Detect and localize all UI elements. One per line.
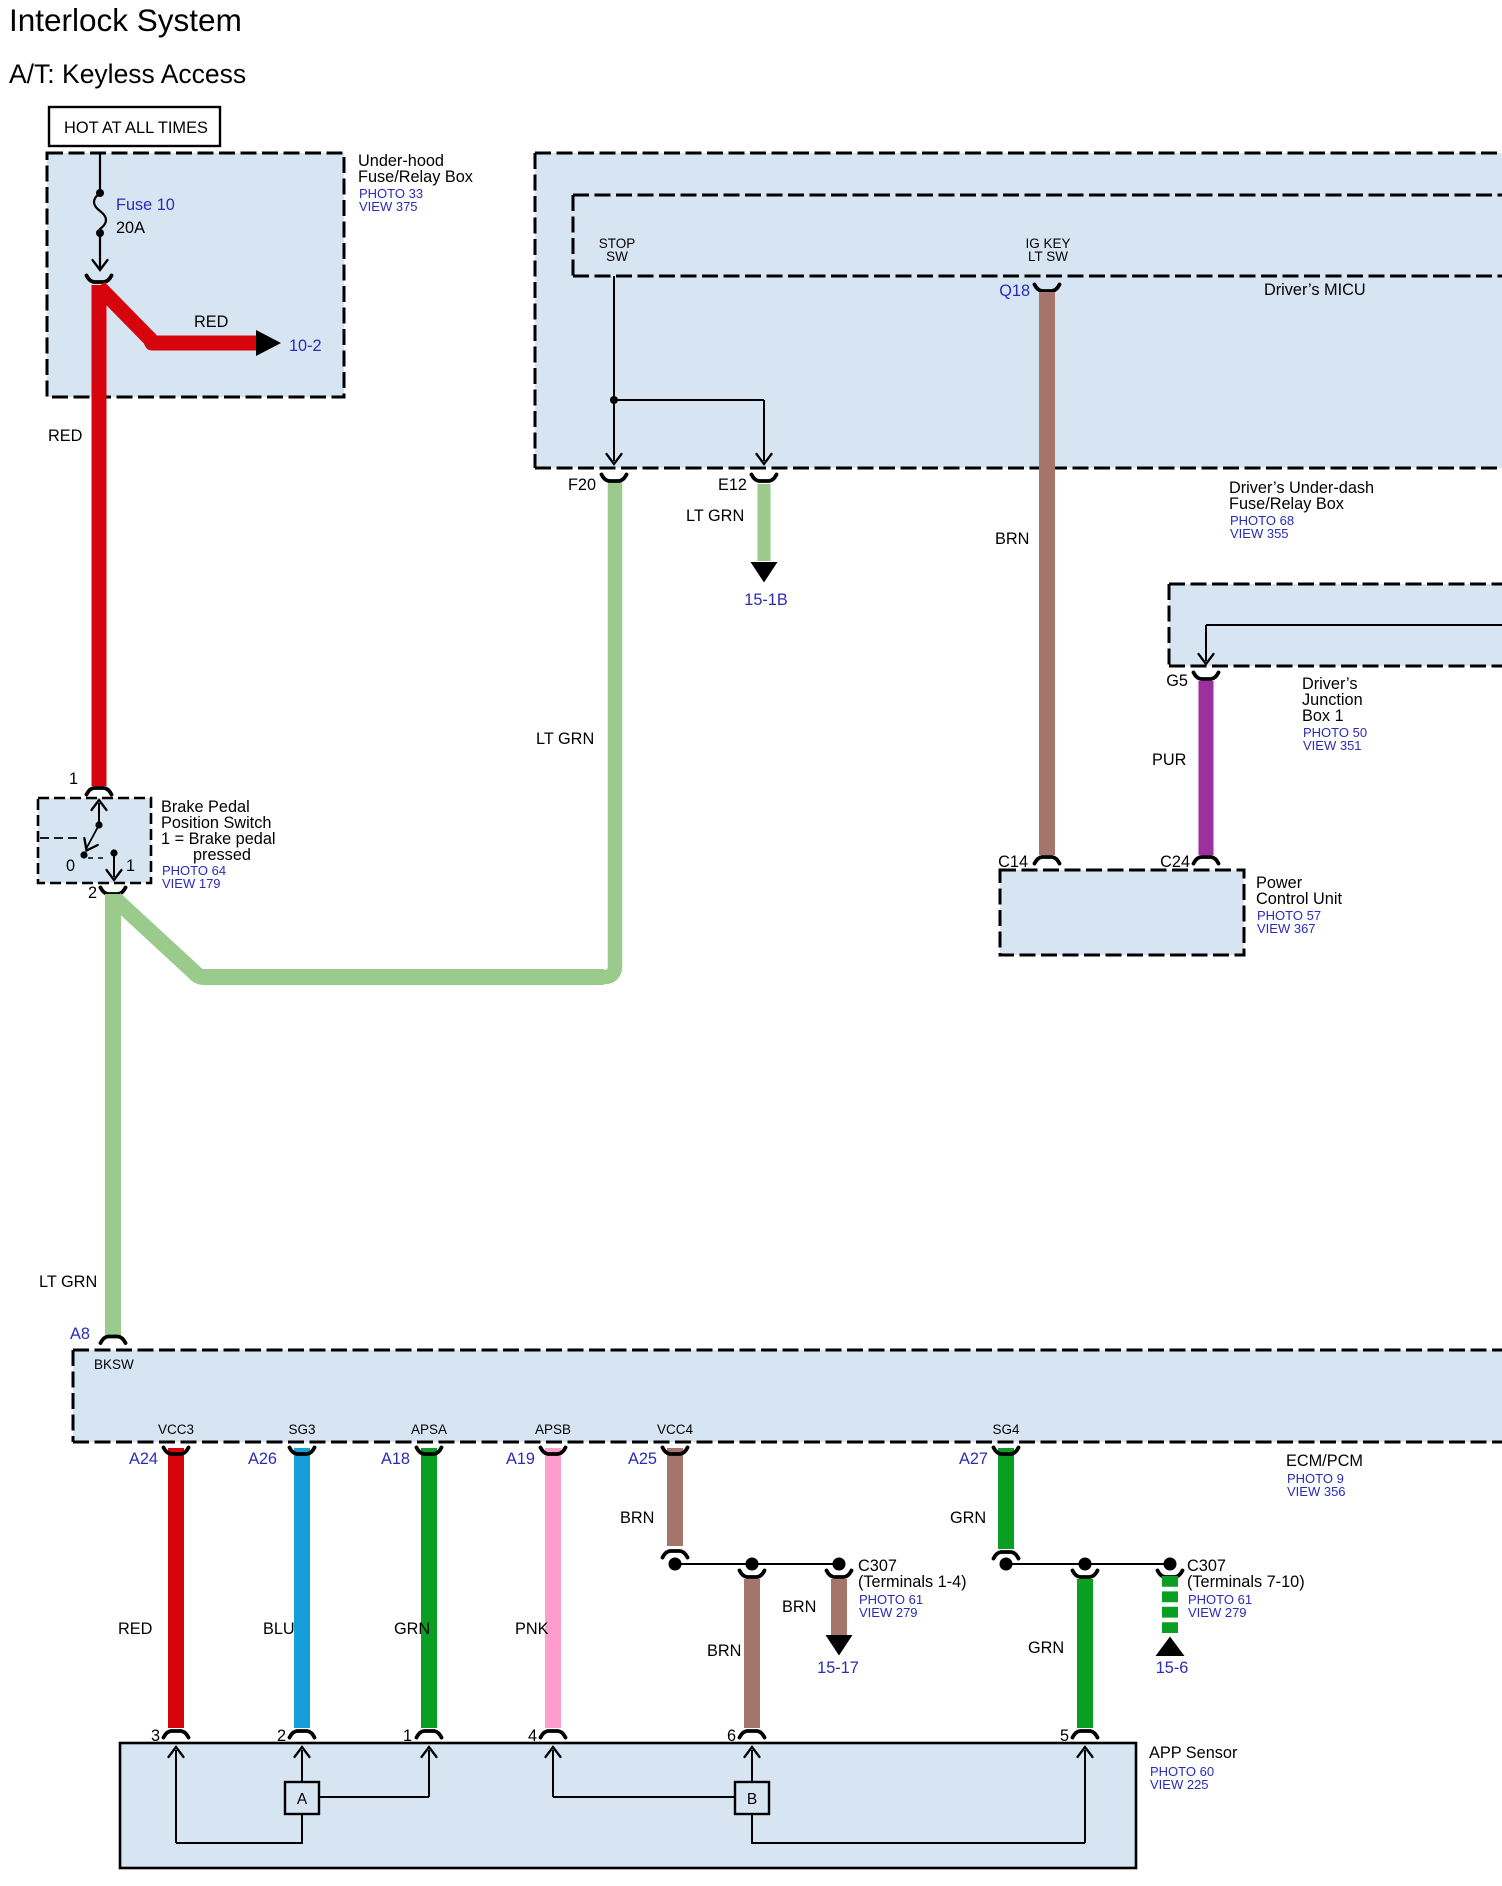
label Power Control Unit xyxy=(1256,874,1342,936)
svg-text:1: 1 xyxy=(126,857,135,875)
svg-text:Q18: Q18 xyxy=(999,282,1030,300)
svg-text:VIEW 225: VIEW 225 xyxy=(1150,1777,1209,1792)
Power Control Unit box xyxy=(1000,870,1244,955)
wire GRN A18 to pin 1 xyxy=(421,1448,437,1728)
wire LT GRN vertical from F20 xyxy=(604,481,615,977)
svg-text:BRN: BRN xyxy=(620,1509,654,1527)
svg-text:10-2: 10-2 xyxy=(289,337,322,355)
label Driver's Junction Box 1 xyxy=(1302,675,1367,753)
wire inside junction box xyxy=(1199,625,1502,664)
connector below node to pin 6 xyxy=(740,1571,765,1578)
wire junction to E12 xyxy=(614,400,772,464)
svg-text:Control Unit: Control Unit xyxy=(1256,890,1342,908)
wire BRN A25 to C307 xyxy=(667,1448,683,1546)
Driver's MICU box xyxy=(573,195,1502,276)
svg-text:C14: C14 xyxy=(998,853,1028,871)
connector A25 xyxy=(663,1448,688,1455)
connector A19 xyxy=(541,1448,566,1455)
svg-text:RED: RED xyxy=(118,1620,152,1638)
svg-text:Box 1: Box 1 xyxy=(1302,707,1344,725)
svg-text:BLU: BLU xyxy=(263,1620,295,1638)
connector below node to pin 5 xyxy=(1073,1571,1098,1578)
arrow to 15-17 xyxy=(826,1635,853,1656)
Driver's Under-dash Fuse/Relay Box xyxy=(535,153,1502,468)
arrow to 15-1B xyxy=(751,562,778,583)
svg-text:VIEW 356: VIEW 356 xyxy=(1287,1484,1346,1499)
wire A to pin 3 xyxy=(176,1814,302,1843)
svg-text:E12: E12 xyxy=(718,476,747,494)
svg-text:2: 2 xyxy=(88,884,97,902)
svg-text:A27: A27 xyxy=(959,1450,988,1468)
svg-text:1: 1 xyxy=(69,770,78,788)
svg-text:Fuse/Relay Box: Fuse/Relay Box xyxy=(1229,495,1344,513)
arrow pin 3 xyxy=(169,1747,184,1843)
connector pin 3 xyxy=(164,1731,189,1738)
svg-text:PUR: PUR xyxy=(1152,751,1186,769)
svg-text:A8: A8 xyxy=(70,1325,90,1343)
svg-text:A19: A19 xyxy=(506,1450,535,1468)
connector A25 end xyxy=(663,1551,688,1558)
svg-text:A/T: Keyless Access: A/T: Keyless Access xyxy=(9,59,246,89)
svg-text:VCC4: VCC4 xyxy=(657,1422,694,1437)
connector pin 4 xyxy=(541,1731,566,1738)
label ECM/PCM xyxy=(1286,1452,1363,1499)
svg-text:LT GRN: LT GRN xyxy=(686,507,744,525)
svg-text:VIEW 279: VIEW 279 xyxy=(1188,1605,1247,1620)
APP Sensor box xyxy=(120,1743,1136,1868)
arrow to 15-6 xyxy=(1156,1637,1185,1657)
svg-text:Interlock System: Interlock System xyxy=(9,2,242,38)
svg-text:ECM/PCM: ECM/PCM xyxy=(1286,1452,1363,1470)
svg-text:BRN: BRN xyxy=(707,1642,741,1660)
svg-text:Fuse/Relay Box: Fuse/Relay Box xyxy=(358,168,473,186)
connector E12 xyxy=(752,475,777,482)
svg-text:GRN: GRN xyxy=(394,1620,430,1638)
svg-text:15-6: 15-6 xyxy=(1156,1659,1189,1677)
junction node xyxy=(610,396,618,404)
node A box xyxy=(285,1782,319,1814)
wire BRN from Q18 to C14 xyxy=(1039,292,1055,855)
svg-text:A25: A25 xyxy=(628,1450,657,1468)
svg-text:APP Sensor: APP Sensor xyxy=(1149,1744,1238,1762)
wire A to pin 1 xyxy=(319,1796,429,1798)
label APP Sensor xyxy=(1149,1744,1238,1792)
connector A24 xyxy=(164,1448,189,1455)
label Under-hood Fuse/Relay Box xyxy=(358,152,473,214)
svg-text:RED: RED xyxy=(194,313,228,331)
arrow pin 5 xyxy=(1078,1747,1093,1843)
svg-text:SG4: SG4 xyxy=(992,1422,1020,1437)
arrow pin 2 xyxy=(295,1747,310,1782)
connector pin 5 xyxy=(1073,1731,1098,1738)
svg-text:B: B xyxy=(747,1791,757,1808)
wire LT GRN from brake switch down to A8 xyxy=(105,894,121,1336)
wire B to pin 4 xyxy=(553,1796,735,1798)
connector pin 1 brake switch xyxy=(87,788,112,795)
connector at fuse box output xyxy=(87,276,112,283)
connector Q18 xyxy=(1035,285,1060,292)
svg-text:15-1B: 15-1B xyxy=(744,591,787,609)
svg-text:APSB: APSB xyxy=(535,1422,571,1437)
svg-text:A18: A18 xyxy=(381,1450,410,1468)
svg-text:GRN: GRN xyxy=(950,1509,986,1527)
wire RED branch to 10-2 xyxy=(99,287,258,343)
connector A27 end xyxy=(994,1552,1019,1559)
label Brake Pedal Position Switch xyxy=(161,798,276,891)
wire GRN to pin 5 xyxy=(1077,1579,1093,1728)
node B box xyxy=(735,1782,769,1814)
svg-text:BRN: BRN xyxy=(782,1598,816,1616)
svg-text:(Terminals 1-4): (Terminals 1-4) xyxy=(858,1573,967,1591)
svg-text:LT GRN: LT GRN xyxy=(536,730,594,748)
wire from HOT to fuse xyxy=(99,153,101,193)
ECM/PCM box xyxy=(73,1350,1502,1442)
wire BRN stub to 15-17 xyxy=(831,1579,847,1636)
connector C14 xyxy=(1035,857,1060,864)
connector pin 6 xyxy=(740,1731,765,1738)
arrow pin 1 xyxy=(422,1747,437,1797)
svg-text:20A: 20A xyxy=(116,219,145,237)
wire BRN to pin 6 xyxy=(744,1579,760,1728)
svg-text:Fuse 10: Fuse 10 xyxy=(116,196,175,214)
svg-text:RED: RED xyxy=(48,427,82,445)
wire B to pin 5 xyxy=(752,1814,1085,1843)
svg-text:VIEW 279: VIEW 279 xyxy=(859,1605,918,1620)
svg-text:(Terminals 7-10): (Terminals 7-10) xyxy=(1187,1573,1305,1591)
arrow to 10-2 xyxy=(256,330,281,356)
svg-text:A24: A24 xyxy=(129,1450,158,1468)
svg-text:Driver’s MICU: Driver’s MICU xyxy=(1264,281,1366,299)
connector F20 xyxy=(602,475,627,482)
label box HOT AT ALL TIMES xyxy=(49,107,220,146)
svg-text:PNK: PNK xyxy=(515,1620,549,1638)
svg-text:15-17: 15-17 xyxy=(817,1659,859,1677)
svg-text:VIEW 367: VIEW 367 xyxy=(1257,921,1316,936)
connector below node to 15-6 xyxy=(1158,1571,1183,1578)
connector pin 2 brake switch xyxy=(101,888,126,895)
connector G5 xyxy=(1194,673,1219,680)
wire STOP SW to F20 xyxy=(607,276,622,464)
wire PUR from G5 to C24 xyxy=(1199,681,1214,855)
wire GRN A27 to C307 xyxy=(998,1448,1014,1549)
Driver's Junction Box 1 xyxy=(1169,584,1502,666)
svg-text:VIEW 179: VIEW 179 xyxy=(162,876,221,891)
wire BLU A26 to pin 2 xyxy=(294,1448,310,1728)
svg-text:0: 0 xyxy=(66,857,75,875)
Under-hood Fuse/Relay Box xyxy=(47,153,344,397)
connector pin 1 xyxy=(417,1731,442,1738)
wire RED vertical to brake switch xyxy=(92,285,107,786)
svg-text:HOT AT ALL TIMES: HOT AT ALL TIMES xyxy=(64,119,208,137)
connector pin 2 xyxy=(290,1731,315,1738)
fuse 10 symbol xyxy=(94,189,106,237)
svg-text:BRN: BRN xyxy=(995,530,1029,548)
C307 junction 1-4 xyxy=(669,1558,846,1571)
Brake Pedal Position Switch box xyxy=(38,798,151,883)
wire GRN dashed stub to 15-6 xyxy=(1162,1576,1178,1633)
svg-text:G5: G5 xyxy=(1166,672,1188,690)
label Driver's Under-dash Fuse/Relay Box xyxy=(1229,479,1374,541)
svg-text:LT SW: LT SW xyxy=(1028,249,1068,264)
wire PNK A19 to pin 4 xyxy=(545,1448,561,1728)
svg-text:VIEW 351: VIEW 351 xyxy=(1303,738,1362,753)
connector A8 xyxy=(101,1337,126,1344)
arrow pin 4 xyxy=(546,1747,561,1797)
svg-text:GRN: GRN xyxy=(1028,1639,1064,1657)
svg-text:VCC3: VCC3 xyxy=(158,1422,194,1437)
svg-text:pressed: pressed xyxy=(193,846,251,864)
svg-text:VIEW 355: VIEW 355 xyxy=(1230,526,1289,541)
svg-text:F20: F20 xyxy=(568,476,596,494)
wire fuse to connector xyxy=(93,233,108,270)
brake switch internals xyxy=(40,800,135,880)
connector C24 xyxy=(1194,857,1219,864)
connector A26 xyxy=(290,1448,315,1455)
svg-text:LT GRN: LT GRN xyxy=(39,1273,97,1291)
svg-text:A26: A26 xyxy=(248,1450,277,1468)
label C307 (Terminals 7-10) xyxy=(1187,1557,1305,1620)
wire LT GRN from E12 xyxy=(758,484,771,561)
svg-text:VIEW 375: VIEW 375 xyxy=(359,199,418,214)
svg-text:APSA: APSA xyxy=(411,1422,447,1437)
wire RED A24 to pin 3 xyxy=(168,1448,184,1728)
connector below node to 15-17 xyxy=(827,1571,852,1578)
arrow pin 6 xyxy=(745,1747,760,1782)
svg-text:C24: C24 xyxy=(1160,853,1190,871)
svg-text:SW: SW xyxy=(606,249,628,264)
svg-text:A: A xyxy=(297,1791,308,1808)
svg-text:BKSW: BKSW xyxy=(94,1357,134,1372)
label C307 (Terminals 1-4) xyxy=(858,1557,967,1620)
svg-text:SG3: SG3 xyxy=(288,1422,315,1437)
connector A18 xyxy=(417,1448,442,1455)
wire LT GRN branch to F20 xyxy=(115,899,604,977)
connector A27 xyxy=(994,1448,1019,1455)
C307 junction 7-10 xyxy=(1000,1558,1177,1571)
